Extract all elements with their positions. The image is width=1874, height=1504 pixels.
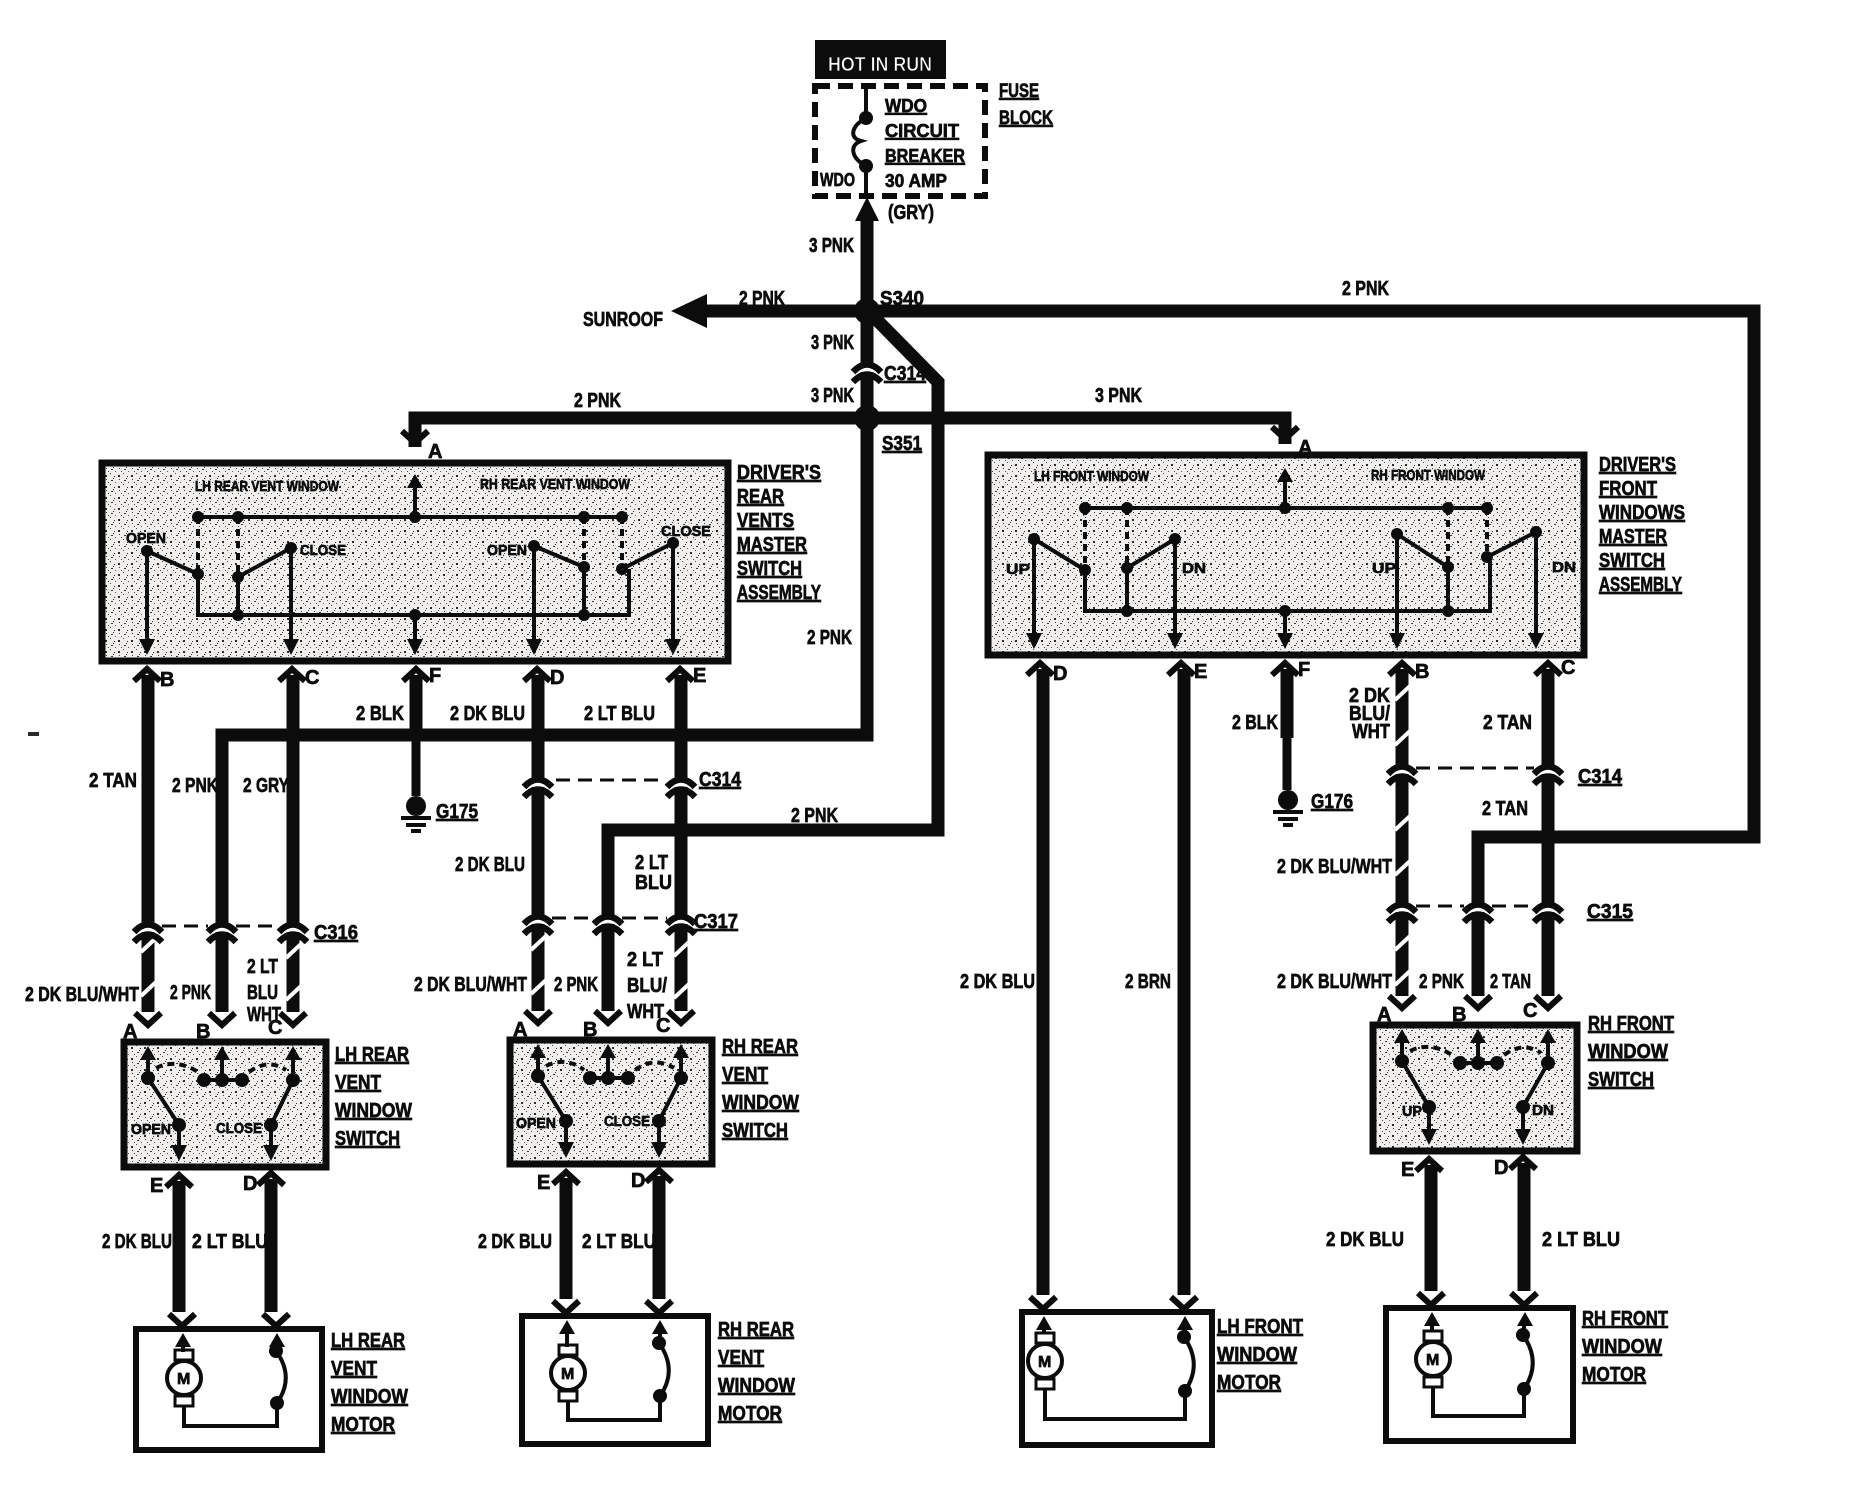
splice S340 [854,288,924,324]
svg-text:DN: DN [1532,1102,1554,1119]
pin D RH front switch [1494,1157,1536,1179]
svg-text:OPEN: OPEN [126,530,166,547]
wire: stray mark left margin [28,732,39,736]
svg-text:E: E [1194,661,1207,683]
svg-text:DN: DN [1182,560,1206,577]
svg-text:WINDOW: WINDOW [722,1092,799,1114]
svg-text:RH REAR: RH REAR [722,1036,798,1058]
svg-text:2 BLK: 2 BLK [1232,712,1278,734]
svg-text:SWITCH: SWITCH [1599,550,1665,572]
pin C right master [1535,657,1575,679]
svg-text:F: F [1298,659,1310,681]
svg-text:D: D [550,667,564,689]
svg-text:WINDOW: WINDOW [1582,1336,1662,1358]
svg-text:2 LT: 2 LT [627,949,663,971]
svg-text:2 PNK: 2 PNK [574,390,621,412]
svg-text:SWITCH: SWITCH [722,1120,788,1142]
svg-text:C: C [656,1015,670,1037]
svg-text:OPEN: OPEN [487,542,527,559]
pin entries RH front motor [1418,1293,1537,1326]
wire: pin A feed into top bus right box [1277,468,1293,508]
svg-text:LH FRONT: LH FRONT [1217,1316,1303,1338]
svg-text:REAR: REAR [737,486,784,508]
pin A left master switch [402,431,442,478]
pin C RH rear switch [656,1011,694,1058]
svg-text:30 AMP: 30 AMP [885,171,947,191]
svg-text:WINDOW: WINDOW [1588,1041,1668,1063]
pin A RH rear switch [513,1011,551,1058]
wire: 2 DK BLU RH rear switch E to motor [478,1178,566,1299]
connector C314 left on D and E wires [524,769,742,797]
svg-text:B: B [583,1019,597,1041]
pin D LH rear switch [243,1173,284,1195]
svg-text:2 DK BLU/WHT: 2 DK BLU/WHT [25,984,139,1006]
svg-text:C316: C316 [314,922,358,944]
svg-text:G176: G176 [1311,791,1353,813]
svg-text:WDO: WDO [885,96,927,116]
svg-text:2 BLK: 2 BLK [356,703,404,725]
pin F right master [1272,659,1310,681]
label FUSE BLOCK [999,81,1053,129]
svg-text:2 DK BLU: 2 DK BLU [102,1231,172,1253]
wire: 2 PNK / 3 PNK branch line to both master switch pin A [415,385,1285,447]
wire: 2 DK BLU/WHT pin B down through C314 C315 to RH front switch pin A [1277,669,1410,996]
DRIVER'S REAR VENTS MASTER SWITCH ASSEMBLY box [102,463,728,661]
svg-text:D: D [1494,1157,1508,1179]
splice S351 [854,405,922,455]
svg-text:UP: UP [1402,1103,1422,1120]
svg-text:SWITCH: SWITCH [737,558,802,580]
ground G175 [401,796,478,831]
svg-text:MOTOR: MOTOR [331,1414,395,1436]
svg-text:2 DK BLU: 2 DK BLU [455,854,525,876]
svg-text:BLU/: BLU/ [627,975,667,997]
connector C314 on trunk [853,363,927,385]
circuit breaker WDO 30 AMP [820,86,965,196]
svg-text:2 GRY: 2 GRY [243,775,290,797]
svg-text:2 BRN: 2 BRN [1125,971,1171,993]
wire: 2 TAN pin B down to C316 / 2 DK BLU/WHT to LH rear switch pin A [89,675,156,1012]
wire: 2 DK BLU pin D down to LH front motor [960,669,1043,1295]
svg-text:SUNROOF: SUNROOF [583,309,663,331]
svg-text:C: C [1523,1000,1537,1022]
wire: pin F drop inside right box [1277,611,1293,649]
svg-text:LH REAR: LH REAR [331,1330,405,1352]
svg-text:2 TAN: 2 TAN [1483,712,1532,734]
svg-text:DRIVER'S: DRIVER'S [1599,454,1676,476]
wire: 2 PNK diagonal from S340 down to RH rear vent switch pin B [608,315,938,1011]
LH FRONT WINDOW MOTOR box [1022,1312,1303,1445]
svg-text:B: B [1452,1004,1466,1026]
pin C RH front switch [1523,996,1561,1043]
wire: pin F drop inside left box [407,615,423,655]
ground G176 [1273,790,1353,825]
motor M LH front window [1028,1328,1194,1419]
pin B RH rear switch [583,1011,621,1058]
svg-text:MOTOR: MOTOR [1582,1364,1646,1386]
wire: 3 PNK trunk S340 to S351 then 2 PNK to LH rear vent switch pin B [222,311,867,1012]
RH REAR VENT WINDOW SWITCH box [510,1036,799,1164]
connector C317 [524,911,738,934]
svg-text:C315: C315 [1587,901,1633,923]
pin E LH rear switch [150,1175,192,1197]
svg-text:C: C [268,1017,282,1039]
svg-text:MASTER: MASTER [737,534,807,556]
switch RH front window (master) [1372,508,1576,649]
svg-text:D: D [1053,663,1067,685]
svg-text:SWITCH: SWITCH [1588,1069,1654,1091]
wire: pin A feed into top bus left box [407,474,423,517]
pin B LH rear switch [196,1013,235,1060]
svg-text:E: E [537,1172,550,1194]
svg-text:RH REAR VENT WINDOW: RH REAR VENT WINDOW [480,476,631,493]
svg-text:2 TAN: 2 TAN [89,770,137,792]
label DRIVER'S FRONT WINDOWS MASTER SWITCH ASSEMBLY [1599,454,1685,596]
LH REAR VENT WINDOW MOTOR box [136,1329,408,1450]
pin entries RH rear motor [553,1301,672,1334]
svg-text:3 PNK: 3 PNK [1095,385,1142,407]
pin C left master [279,667,319,689]
svg-text:2 LT: 2 LT [247,956,278,978]
svg-text:UP: UP [1372,560,1396,577]
labels below C316 [25,956,281,1026]
DRIVER'S FRONT WINDOWS MASTER SWITCH ASSEMBLY box [988,455,1584,655]
RH FRONT WINDOW SWITCH box [1373,1013,1674,1151]
connector C315 [1388,901,1633,923]
switch RH rear vent window (master) [487,517,711,655]
svg-text:VENT: VENT [718,1347,764,1369]
motor M RH rear vent [551,1332,669,1420]
pin E right master [1168,661,1207,683]
pin E left master [667,665,706,687]
svg-text:3 PNK: 3 PNK [811,385,854,407]
svg-text:VENT: VENT [335,1072,381,1094]
RH FRONT WINDOW MOTOR box [1386,1308,1668,1441]
svg-text:MASTER: MASTER [1599,526,1667,548]
svg-text:LH REAR VENT WINDOW: LH REAR VENT WINDOW [195,478,340,495]
svg-text:WINDOW: WINDOW [1217,1344,1297,1366]
pin E RH front switch [1401,1159,1442,1181]
svg-text:E: E [150,1175,163,1197]
svg-text:BLU: BLU [635,872,672,894]
svg-text:CLOSE: CLOSE [216,1120,262,1137]
pin entries LH front motor [1030,1297,1197,1330]
svg-text:SWITCH: SWITCH [335,1128,400,1150]
svg-text:2 TAN: 2 TAN [1482,798,1528,820]
wire: 2 DK BLU LH rear switch E to motor [102,1181,179,1312]
svg-text:2 PNK: 2 PNK [1342,278,1389,300]
svg-text:C317: C317 [694,911,738,933]
pin A RH front switch [1377,996,1415,1043]
svg-text:LH FRONT WINDOW: LH FRONT WINDOW [1034,468,1150,485]
wire: 2 LT BLU pin E down through C314 C317 to RH rear switch pin C [584,675,689,1011]
svg-text:2 DK BLU: 2 DK BLU [450,703,525,725]
pin D RH rear switch [631,1170,672,1192]
svg-text:VENT: VENT [722,1064,768,1086]
motor M RH front window [1416,1324,1533,1416]
svg-text:(GRY): (GRY) [888,202,934,224]
svg-text:S340: S340 [880,288,924,310]
svg-text:C314: C314 [1578,766,1623,788]
svg-text:E: E [693,665,706,687]
svg-text:C: C [1561,657,1575,679]
svg-text:CIRCUIT: CIRCUIT [885,121,959,141]
svg-text:RH FRONT: RH FRONT [1582,1308,1668,1330]
switch RH front internals [1395,1041,1555,1145]
svg-text:B: B [1415,661,1429,683]
svg-text:3 PNK: 3 PNK [809,235,854,257]
wire: 2 DK BLU RH front switch E to motor [1326,1165,1431,1291]
svg-text:MOTOR: MOTOR [1217,1372,1281,1394]
pin B right master [1389,661,1429,683]
svg-text:VENTS: VENTS [737,510,794,532]
wire: top bus left box [192,511,628,523]
motor M LH rear vent [167,1344,286,1426]
svg-text:G175: G175 [436,801,478,823]
svg-text:DN: DN [1552,559,1576,576]
svg-text:D: D [243,1173,257,1195]
svg-text:OPEN: OPEN [516,1115,556,1132]
svg-text:A: A [123,1021,137,1043]
svg-text:BLU: BLU [247,982,278,1004]
wire: lower bus right box [1085,561,1490,617]
svg-text:2 LT: 2 LT [635,852,668,874]
svg-text:CLOSE: CLOSE [604,1113,650,1130]
label DRIVER'S REAR VENTS MASTER SWITCH ASSEMBLY [737,462,821,604]
svg-text:BREAKER: BREAKER [885,146,965,166]
wire: 2 LT BLU RH rear switch D to motor [582,1176,659,1299]
svg-text:2 PNK: 2 PNK [172,775,218,797]
svg-text:C314: C314 [699,769,742,791]
node HOT IN RUN power tag [815,40,946,79]
wire: 2 LT BLU LH rear switch D to motor [192,1179,271,1312]
svg-text:CLOSE: CLOSE [661,523,711,540]
svg-text:B: B [160,669,174,691]
svg-text:F: F [429,665,441,687]
svg-text:ASSEMBLY: ASSEMBLY [1599,574,1682,596]
pin A right master switch [1272,427,1312,474]
svg-text:ASSEMBLY: ASSEMBLY [737,582,821,604]
svg-text:FUSE: FUSE [999,81,1039,102]
pin F left master [403,665,441,687]
svg-text:C: C [305,667,319,689]
svg-text:D: D [631,1170,645,1192]
wire: 2 PNK sunroof feed with arrow [583,278,1754,331]
svg-text:2 PNK: 2 PNK [1419,971,1464,993]
pin D right master [1027,663,1067,685]
svg-text:2 DK BLU: 2 DK BLU [960,971,1035,993]
svg-text:2 DK BLU/WHT: 2 DK BLU/WHT [1277,856,1392,878]
svg-text:B: B [196,1021,210,1043]
pin A LH rear switch [123,1013,161,1060]
svg-text:RH REAR: RH REAR [718,1319,794,1341]
svg-text:2 PNK: 2 PNK [791,805,838,827]
pin B left master [134,669,174,691]
svg-text:2 DK BLU/WHT: 2 DK BLU/WHT [414,974,527,996]
svg-text:3 PNK: 3 PNK [811,332,854,354]
svg-text:E: E [1401,1159,1414,1181]
svg-text:BLOCK: BLOCK [999,108,1053,129]
pin B RH front switch [1452,996,1491,1043]
wire: 2 GRY pin C down to C316 / 2 LT BLU WHT to LH rear switch pin C [243,675,301,1012]
svg-text:2 TAN: 2 TAN [1490,971,1531,993]
pin E RH rear switch [537,1172,579,1194]
svg-text:OPEN: OPEN [131,1121,171,1138]
svg-text:LH REAR: LH REAR [335,1044,409,1066]
svg-text:2 LT BLU: 2 LT BLU [582,1231,656,1253]
switch RH rear vent internals [516,1056,688,1158]
wire: top bus right box [1079,502,1493,514]
labels below C317 [414,949,667,1023]
svg-text:2 PNK: 2 PNK [554,974,598,996]
wire: 2 PNK long run right side down to RH front window switch pin B [1478,311,1754,996]
wire: 2 LT BLU RH front switch D to motor [1524,1163,1620,1291]
svg-text:2 PNK: 2 PNK [807,627,852,649]
LH REAR VENT WINDOW SWITCH box [124,1042,412,1167]
pin D left master [524,667,564,689]
svg-text:2 PNK: 2 PNK [170,982,211,1004]
wire: 2 BLK pin F to ground G176 [1232,669,1287,790]
svg-text:WINDOW: WINDOW [335,1100,412,1122]
svg-text:VENT: VENT [331,1358,377,1380]
wire: 2 TAN pin C down through C314 C315 to RH front switch pin C [1482,669,1548,996]
svg-text:2 DK BLU: 2 DK BLU [478,1231,552,1253]
svg-text:2 DK BLU/WHT: 2 DK BLU/WHT [1277,971,1392,993]
switch LH front window (master) [1006,508,1206,649]
svg-text:DRIVER'S: DRIVER'S [737,462,821,484]
wire: 2 BLK pin F to ground G175 [356,675,416,796]
wire: 3 PNK feed from fuse block to S340 [809,197,879,311]
RH REAR VENT WINDOW MOTOR box [522,1316,795,1444]
svg-text:WINDOWS: WINDOWS [1599,502,1685,524]
svg-text:MOTOR: MOTOR [718,1403,782,1425]
svg-text:A: A [1377,1004,1391,1026]
connector C314 right on B and C wires [1388,765,1623,788]
pin entries LH rear motor [169,1314,289,1347]
pin C LH rear switch [268,1013,306,1060]
svg-text:S351: S351 [882,433,922,455]
svg-text:RH FRONT WINDOW: RH FRONT WINDOW [1371,467,1486,484]
switch LH rear vent window (master) [126,517,346,655]
svg-text:WINDOW: WINDOW [718,1375,795,1397]
fuse block dashed enclosure [815,86,985,196]
svg-text:2 LT BLU: 2 LT BLU [1542,1229,1620,1251]
svg-text:2 LT BLU: 2 LT BLU [584,703,655,725]
svg-text:RH FRONT: RH FRONT [1588,1013,1674,1035]
svg-text:2 PNK: 2 PNK [739,288,785,310]
wire: lower bus left box [198,569,629,621]
svg-text:CLOSE: CLOSE [300,542,346,559]
wire: 2 BRN pin E down to LH front motor [1125,669,1184,1295]
svg-text:WHT: WHT [1352,721,1390,743]
svg-text:A: A [513,1019,527,1041]
svg-text:HOT IN RUN: HOT IN RUN [828,54,932,76]
svg-text:2 DK BLU: 2 DK BLU [1326,1229,1404,1251]
svg-text:FRONT: FRONT [1599,478,1657,500]
switch LH rear vent internals [131,1058,300,1161]
svg-text:UP: UP [1006,561,1030,578]
wire: 2 DK BLU pin D down through C314 C317 to RH rear switch pin A [450,675,546,1011]
connector C316 [134,922,358,944]
svg-text:WINDOW: WINDOW [331,1386,408,1408]
svg-text:2 LT BLU: 2 LT BLU [192,1231,268,1253]
svg-text:WDO: WDO [820,170,855,190]
